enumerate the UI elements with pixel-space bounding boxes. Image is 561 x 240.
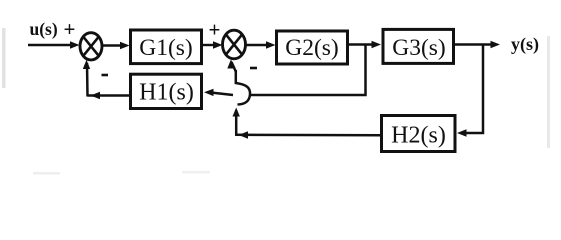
block H1 xyxy=(131,74,202,108)
block G2 xyxy=(277,31,348,64)
wire G1 to S2 xyxy=(202,44,217,46)
wire G2 to G3 xyxy=(347,43,375,45)
svg-text:G1(s): G1(s) xyxy=(139,35,193,61)
block G3 xyxy=(383,29,454,63)
block G1 xyxy=(131,30,202,64)
svg-text:y(s): y(s) xyxy=(511,34,539,55)
wire G3 to output y(s) xyxy=(455,43,493,45)
block H2 xyxy=(382,116,456,152)
svg-text:+: + xyxy=(209,18,221,42)
wire H1 output to S1 xyxy=(88,94,131,97)
svg-text:H1(s): H1(s) xyxy=(139,80,194,106)
wire H2 output to S2 lower input xyxy=(235,134,381,137)
wire S1 to G1 xyxy=(103,44,124,46)
summing junction S2 xyxy=(223,30,246,59)
svg-text:+: + xyxy=(64,17,76,41)
svg-text:u(s): u(s) xyxy=(30,19,58,39)
scan streak left edge xyxy=(2,28,6,88)
node between G2 and G3, wire down to H1 row xyxy=(251,45,366,96)
scan smudge bottom middle xyxy=(182,171,210,174)
svg-text:G2(s): G2(s) xyxy=(285,35,339,61)
wire hop-left segment into H1 xyxy=(213,93,233,95)
wire input u(s) to S1 xyxy=(28,44,72,46)
summing junction S1 xyxy=(80,33,102,60)
scan streak right edge xyxy=(547,36,550,148)
minus sign at S2 lower input xyxy=(250,67,257,70)
node on output wire, vertical down to H2 input xyxy=(463,45,483,134)
wire S2 to G2 xyxy=(246,44,269,46)
svg-text:G3(s): G3(s) xyxy=(392,35,446,61)
scan smudge bottom left xyxy=(33,172,60,175)
wire S2 lower input vertical with crossover hop xyxy=(232,62,237,72)
minus sign at S1 lower input xyxy=(102,74,109,77)
svg-text:H2(s): H2(s) xyxy=(391,123,446,149)
